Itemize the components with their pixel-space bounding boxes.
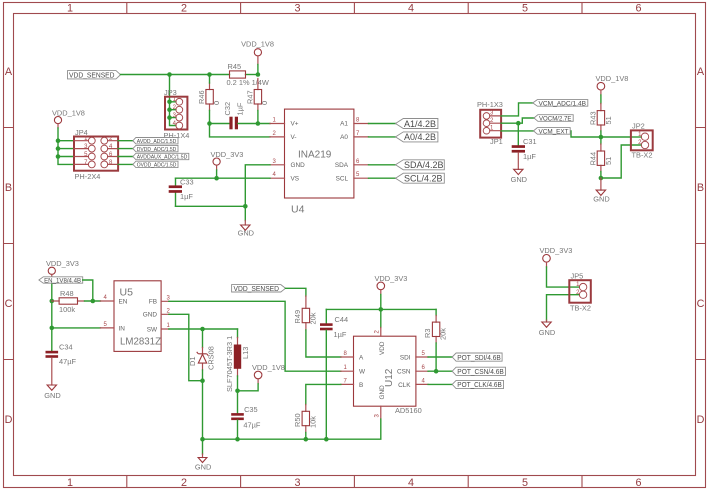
wire L13 bottom bbox=[237, 376, 239, 391]
ground GND (below C34) bbox=[44, 385, 60, 400]
svg-text:PH-2X4: PH-2X4 bbox=[75, 172, 101, 181]
junction IN node bbox=[50, 326, 55, 331]
net flag OVDD_ADC/1.5D bbox=[133, 161, 178, 168]
svg-text:VS: VS bbox=[291, 176, 300, 183]
svg-text:VDD: VDD bbox=[379, 341, 386, 355]
svg-text:OVDD_ADC/1.5D: OVDD_ADC/1.5D bbox=[137, 163, 177, 169]
svg-text:C: C bbox=[5, 298, 13, 310]
svg-text:6: 6 bbox=[635, 3, 641, 15]
wire VDD_1V8 to R43 bbox=[600, 95, 602, 104]
svg-text:C32: C32 bbox=[223, 102, 232, 116]
svg-text:47µF: 47µF bbox=[59, 357, 76, 366]
net flag VCM_EXT bbox=[534, 128, 571, 136]
supply VDD_1V8 (left) bbox=[52, 109, 85, 129]
svg-text:JP2: JP2 bbox=[632, 122, 645, 131]
svg-text:VCM_EXT: VCM_EXT bbox=[539, 129, 569, 136]
wire R44 bottom bbox=[600, 172, 602, 179]
junction VDD node bbox=[379, 307, 384, 312]
wire A1 to flag bbox=[369, 123, 396, 125]
wire U4 GND pin to drop bbox=[245, 165, 270, 207]
svg-text:TB-X2: TB-X2 bbox=[632, 151, 653, 160]
svg-text:JP5: JP5 bbox=[571, 272, 584, 281]
wire R47 bottom bbox=[257, 111, 259, 124]
junction R43/R44 node bbox=[599, 135, 604, 140]
junction JP3 pin1 bbox=[167, 100, 172, 105]
svg-text:6: 6 bbox=[635, 477, 641, 489]
wire VDD_3V3 mid stem bbox=[380, 295, 382, 310]
svg-text:EN: EN bbox=[119, 299, 128, 306]
wire U12 VDD pin bbox=[380, 309, 382, 327]
svg-text:R47: R47 bbox=[246, 90, 255, 104]
IC U5 LM2831Z bbox=[100, 281, 170, 352]
capacitor C44 bbox=[320, 315, 348, 339]
resistor R49 bbox=[293, 296, 318, 330]
svg-text:1µF: 1µF bbox=[523, 152, 536, 161]
svg-text:V-: V- bbox=[291, 134, 297, 141]
pin R44 gnd stem bbox=[600, 178, 602, 190]
svg-text:D: D bbox=[5, 414, 13, 426]
wire R49 bottom to A pin bbox=[306, 330, 341, 357]
connector JP1 PH-1X3 bbox=[477, 100, 503, 146]
svg-text:C: C bbox=[697, 298, 705, 310]
net flag AVDDAUX_ADC/1.5D bbox=[133, 153, 189, 160]
svg-text:VDD_1V8: VDD_1V8 bbox=[252, 363, 285, 372]
svg-text:POT_CLK/4.6B: POT_CLK/4.6B bbox=[457, 380, 502, 389]
svg-text:47µF: 47µF bbox=[243, 420, 260, 429]
wire GND tap bbox=[202, 439, 204, 454]
wire VDD_SENSED main bbox=[121, 74, 230, 76]
svg-text:D1: D1 bbox=[188, 357, 197, 366]
svg-text:A: A bbox=[5, 66, 13, 78]
resistor R43 bbox=[589, 104, 614, 132]
svg-text:R45: R45 bbox=[228, 62, 242, 71]
wire A0 to flag bbox=[369, 136, 396, 138]
svg-text:VDD_SENSED: VDD_SENSED bbox=[234, 286, 280, 293]
wire JP4 row2 to flag bbox=[118, 148, 133, 150]
wire JP2 pin1 bbox=[631, 136, 641, 138]
capacitor C33 bbox=[169, 178, 194, 207]
svg-text:1: 1 bbox=[67, 3, 73, 15]
svg-text:5: 5 bbox=[522, 477, 528, 489]
ground GND (below U4) bbox=[238, 221, 254, 238]
wire C44 bottom to rail bbox=[325, 330, 327, 439]
net flag POT_CSN/4.6B bbox=[452, 367, 505, 376]
wire FB long bbox=[169, 301, 341, 371]
wire R46 bottom to C32 row bbox=[210, 111, 230, 124]
svg-text:POT_CSN/4.6B: POT_CSN/4.6B bbox=[457, 367, 504, 376]
net flag SCL/4.2B bbox=[396, 173, 445, 183]
ground GND (below C31) bbox=[511, 169, 527, 184]
svg-text:3: 3 bbox=[294, 3, 300, 15]
wire U5 GND route bbox=[169, 314, 203, 380]
net flag EN_1V8/4.4B bbox=[39, 277, 83, 285]
svg-text:GND: GND bbox=[238, 228, 254, 237]
junction R44/GND node bbox=[599, 176, 604, 181]
svg-text:IN: IN bbox=[119, 325, 126, 332]
svg-text:51: 51 bbox=[604, 116, 613, 124]
wire C31 stem bbox=[517, 123, 519, 145]
node junction at R46 branch bbox=[207, 72, 212, 77]
svg-text:PH-1X3: PH-1X3 bbox=[477, 100, 503, 109]
net flag VCM_ADC/1.4B bbox=[533, 100, 588, 108]
svg-text:AVDD_ADC/1.5D: AVDD_ADC/1.5D bbox=[137, 139, 177, 145]
svg-text:DVDD_ADC/1.5D: DVDD_ADC/1.5D bbox=[137, 147, 177, 153]
svg-text:1: 1 bbox=[67, 477, 73, 489]
wire B pin to R50 bbox=[306, 384, 341, 404]
svg-text:U5: U5 bbox=[120, 287, 134, 299]
svg-text:GND: GND bbox=[291, 162, 306, 169]
net flag POT_SDI/4.6B bbox=[452, 353, 502, 362]
svg-text:JP4: JP4 bbox=[75, 128, 88, 137]
wire C35 stem bbox=[237, 391, 239, 413]
svg-text:GND: GND bbox=[593, 194, 609, 203]
svg-text:3: 3 bbox=[294, 477, 300, 489]
wire VS row bbox=[176, 177, 271, 179]
svg-text:A: A bbox=[697, 66, 705, 78]
svg-text:POT_SDI/4.6B: POT_SDI/4.6B bbox=[457, 353, 501, 362]
net flag A1/4.2B bbox=[396, 119, 438, 129]
wire R48 right to EN bbox=[85, 300, 101, 302]
junction L13/C35 node bbox=[235, 389, 240, 394]
wire V- branch bbox=[210, 124, 271, 137]
junction EN node bbox=[91, 299, 96, 304]
svg-text:0.2 1% 1/4W: 0.2 1% 1/4W bbox=[227, 78, 269, 87]
svg-text:5: 5 bbox=[522, 3, 528, 15]
svg-text:CSN: CSN bbox=[397, 369, 411, 376]
junction C32 left bbox=[207, 121, 212, 126]
svg-text:R49: R49 bbox=[293, 310, 302, 324]
svg-text:VDD_3V3: VDD_3V3 bbox=[211, 150, 244, 159]
wire IN row bbox=[52, 327, 101, 329]
capacitor C32 bbox=[223, 102, 245, 129]
capacitor C31 bbox=[512, 137, 537, 161]
svg-text:GND: GND bbox=[539, 328, 555, 337]
wire CSN to flag bbox=[428, 370, 452, 372]
svg-text:SW: SW bbox=[147, 326, 158, 333]
junction rail C44 bbox=[324, 437, 329, 442]
svg-text:U4: U4 bbox=[291, 204, 305, 216]
svg-text:SDA: SDA bbox=[335, 162, 349, 169]
ground GND (below R44) bbox=[593, 190, 609, 203]
supply VDD_1V8 (top) bbox=[241, 40, 274, 65]
svg-text:CRS08: CRS08 bbox=[207, 346, 216, 370]
supply VDD_3V3 (left) bbox=[46, 259, 79, 279]
resistor R50 bbox=[293, 405, 318, 433]
svg-text:51: 51 bbox=[604, 157, 613, 165]
wire D1 bottom bbox=[202, 370, 204, 381]
wire R3 top bbox=[435, 309, 437, 315]
pin C34 bottom bbox=[51, 358, 53, 385]
wire VDD_SENSED to R49 bbox=[286, 288, 306, 296]
wire C32 right to U4 pin1 bbox=[238, 123, 270, 125]
svg-text:R50: R50 bbox=[293, 413, 302, 427]
resistor R47 bbox=[246, 79, 270, 111]
svg-text:4: 4 bbox=[408, 477, 414, 489]
junction JP3 pin2 bbox=[167, 107, 172, 112]
junction VDD_3V3/VS bbox=[214, 176, 219, 181]
wire JP4 row3 to flag bbox=[118, 156, 133, 158]
svg-text:JP1: JP1 bbox=[490, 137, 503, 146]
wire R50 bottom bbox=[305, 433, 307, 440]
svg-text:V+: V+ bbox=[291, 121, 299, 128]
supply VDD_3V3 (above C33) bbox=[211, 150, 244, 170]
wire SCL to flag bbox=[369, 177, 396, 179]
svg-text:W: W bbox=[359, 369, 366, 376]
svg-text:VDD_1V8: VDD_1V8 bbox=[52, 109, 85, 118]
svg-text:0: 0 bbox=[212, 101, 221, 105]
supply VDD_3V3 (mid) bbox=[375, 274, 408, 295]
resistor R44 bbox=[589, 144, 614, 172]
svg-text:10k: 10k bbox=[309, 416, 318, 428]
capacitor C34 bbox=[46, 343, 77, 367]
wire JP2 pin2 route bbox=[601, 145, 641, 178]
ground GND (below JP5) bbox=[539, 320, 555, 337]
svg-text:B: B bbox=[5, 182, 12, 194]
svg-text:LM2831Z: LM2831Z bbox=[120, 336, 161, 347]
svg-text:VDD_3V3: VDD_3V3 bbox=[46, 259, 79, 268]
diode D1 CRS08 bbox=[188, 329, 216, 370]
resistor R48 bbox=[52, 289, 85, 314]
wire C35 bottom bbox=[237, 420, 239, 439]
junction rail R50 bbox=[304, 437, 309, 442]
svg-text:AD5160: AD5160 bbox=[395, 406, 422, 415]
svg-text:A: A bbox=[359, 355, 364, 362]
svg-text:B: B bbox=[359, 382, 363, 389]
connector JP3 PH-1X4 bbox=[164, 88, 190, 140]
svg-text:A0: A0 bbox=[340, 134, 348, 141]
svg-text:SLF7045T-3R3 1: SLF7045T-3R3 1 bbox=[225, 336, 234, 392]
svg-text:100k: 100k bbox=[59, 305, 75, 314]
svg-text:GND: GND bbox=[44, 391, 60, 400]
wire VDD row bbox=[326, 308, 436, 310]
junction GND node bbox=[243, 204, 248, 209]
net flag DVDD_ADC/1.5D bbox=[133, 145, 178, 152]
net flag SDA/4.2B bbox=[396, 160, 445, 170]
wire VDD_3V3 left bus bbox=[51, 279, 53, 350]
wire JP4 row1 to flag bbox=[118, 140, 133, 142]
resistor R45 bbox=[227, 62, 269, 87]
svg-text:A1: A1 bbox=[340, 121, 348, 128]
svg-text:R48: R48 bbox=[60, 289, 74, 298]
svg-text:L13: L13 bbox=[241, 347, 250, 359]
svg-text:1µF: 1µF bbox=[235, 102, 244, 115]
svg-text:A1/4.2B: A1/4.2B bbox=[404, 119, 436, 129]
svg-text:C35: C35 bbox=[244, 405, 258, 414]
svg-text:SCL/4.2B: SCL/4.2B bbox=[404, 174, 443, 184]
junction C31 node bbox=[516, 121, 521, 126]
svg-text:INA219: INA219 bbox=[298, 150, 332, 161]
svg-text:1µF: 1µF bbox=[180, 192, 193, 201]
wire R46 top bbox=[209, 75, 211, 84]
wire JP4 row4 to flag bbox=[118, 163, 133, 165]
svg-text:VDD_1V8: VDD_1V8 bbox=[241, 40, 274, 49]
svg-text:GND: GND bbox=[379, 385, 386, 400]
svg-text:C44: C44 bbox=[335, 315, 349, 324]
wire R43 bottom bbox=[600, 131, 602, 137]
junction rail GND tap bbox=[200, 437, 205, 442]
svg-text:R3: R3 bbox=[423, 329, 432, 338]
junction D1 anode node bbox=[200, 378, 205, 383]
svg-text:GND: GND bbox=[195, 463, 211, 472]
svg-text:R43: R43 bbox=[589, 111, 598, 125]
net flag VDD_SENSED bbox=[68, 71, 121, 80]
junction R48 left bbox=[50, 299, 55, 304]
wire EN flag to R48 node bbox=[83, 280, 93, 301]
junction JP4 row3 bbox=[56, 154, 61, 159]
wire R44 top bbox=[600, 137, 602, 144]
wire JP5 pin1 route bbox=[547, 267, 580, 287]
svg-text:GND: GND bbox=[511, 175, 527, 184]
svg-text:VOCM/2.7E: VOCM/2.7E bbox=[539, 116, 572, 123]
inductor L13 bbox=[225, 329, 250, 392]
node junction at R45/VDD_1V8 bbox=[256, 72, 261, 77]
junction rail C35 bbox=[235, 437, 240, 442]
svg-text:R44: R44 bbox=[589, 152, 598, 166]
net flag POT_CLK/4.6B bbox=[452, 380, 503, 389]
svg-text:FB: FB bbox=[149, 299, 157, 306]
wire SDI to flag bbox=[428, 356, 452, 358]
svg-text:C33: C33 bbox=[180, 178, 194, 187]
junction JP4 row2 bbox=[56, 146, 61, 151]
wire R3 bottom to CSN bbox=[435, 343, 437, 371]
net flag VDD_SENSED (mid) bbox=[232, 285, 286, 293]
supply VDD_1V8 (mid) bbox=[252, 363, 285, 384]
svg-text:EN_1V8/4.4B: EN_1V8/4.4B bbox=[44, 278, 81, 284]
resistor R3 bbox=[423, 316, 448, 344]
wire JP1 pin3 to VCM_ADC bbox=[501, 103, 533, 116]
svg-text:2: 2 bbox=[181, 3, 187, 15]
svg-text:GND: GND bbox=[143, 312, 158, 319]
wire SDA to flag bbox=[369, 164, 396, 166]
svg-text:SCL: SCL bbox=[336, 176, 349, 183]
svg-text:R46: R46 bbox=[197, 90, 206, 104]
connector JP5 TB-X2 bbox=[569, 272, 591, 313]
svg-text:CLK: CLK bbox=[398, 382, 411, 389]
junction JP4 row1 bbox=[56, 138, 61, 143]
svg-text:20k: 20k bbox=[439, 328, 448, 340]
IC U12 AD5160 bbox=[341, 328, 428, 420]
wire VDD_3V3 to VS row bbox=[216, 170, 218, 178]
wire R45 right to node bbox=[246, 74, 258, 76]
junction R3/CSN bbox=[434, 369, 439, 374]
wire C33 bottom to GND bbox=[176, 206, 246, 220]
wire VDD_1V8 to R45 node bbox=[257, 65, 259, 75]
wire CLK to flag bbox=[428, 383, 452, 385]
wire JP3 drop bbox=[170, 75, 176, 126]
svg-text:0: 0 bbox=[260, 101, 269, 105]
connector JP4 PH-2X4 bbox=[74, 128, 118, 181]
svg-text:SDA/4.2B: SDA/4.2B bbox=[404, 160, 444, 170]
svg-text:VDD_3V3: VDD_3V3 bbox=[375, 274, 408, 283]
ground GND (bottom) bbox=[195, 454, 211, 472]
node junction at JP3 branch bbox=[167, 72, 172, 77]
supply VDD_1V8 (right) bbox=[596, 74, 629, 95]
wire JP1 pin2 to VOCM bbox=[501, 118, 534, 123]
svg-text:C31: C31 bbox=[523, 137, 537, 146]
supply VDD_3V3 (right) bbox=[540, 246, 573, 267]
wire D1 node to rail bbox=[202, 381, 204, 440]
svg-text:VDD_1V8: VDD_1V8 bbox=[596, 74, 629, 83]
svg-text:JP3: JP3 bbox=[164, 88, 177, 97]
net flag A0/4.2B bbox=[396, 132, 438, 142]
junction JP3 pin3 bbox=[167, 115, 172, 120]
wire JP1 pin1 long bbox=[501, 131, 631, 137]
resistor R46 bbox=[197, 83, 221, 111]
IC U4 INA219 bbox=[270, 109, 369, 215]
wire C44 top node bbox=[325, 309, 327, 323]
wire JP4 left bus bbox=[58, 128, 74, 164]
svg-text:D: D bbox=[697, 414, 705, 426]
svg-text:U12: U12 bbox=[384, 368, 395, 387]
svg-text:TB-X2: TB-X2 bbox=[570, 304, 591, 313]
svg-text:20k: 20k bbox=[309, 312, 318, 324]
svg-text:1µF: 1µF bbox=[334, 330, 347, 339]
junction R47/C32 bbox=[256, 121, 261, 126]
svg-text:VCM_ADC/1.4B: VCM_ADC/1.4B bbox=[539, 101, 587, 108]
svg-text:2: 2 bbox=[181, 477, 187, 489]
wire GND rail bbox=[203, 419, 381, 439]
svg-text:4: 4 bbox=[408, 3, 414, 15]
svg-text:A0/4.2B: A0/4.2B bbox=[404, 132, 436, 142]
svg-text:VDD_SENSED: VDD_SENSED bbox=[69, 71, 115, 80]
wire SW row bbox=[169, 328, 238, 330]
pin C31 bottom bbox=[517, 153, 519, 170]
svg-text:B: B bbox=[697, 182, 704, 194]
capacitor C35 bbox=[231, 405, 261, 429]
junction D1 top bbox=[200, 327, 205, 332]
connector JP2 TB-X2 bbox=[631, 122, 653, 160]
svg-text:SDI: SDI bbox=[400, 355, 411, 362]
svg-text:AVDDAUX_ADC/1.5D: AVDDAUX_ADC/1.5D bbox=[137, 155, 188, 161]
net flag VOCM/2.7E bbox=[534, 115, 573, 123]
wire JP5 pin2 route bbox=[547, 295, 580, 320]
wire VDD_1V8 mid to node bbox=[238, 384, 259, 391]
svg-text:VDD_3V3: VDD_3V3 bbox=[540, 246, 573, 255]
net flag AVDD_ADC/1.5D bbox=[133, 138, 178, 145]
svg-text:C34: C34 bbox=[59, 343, 73, 352]
